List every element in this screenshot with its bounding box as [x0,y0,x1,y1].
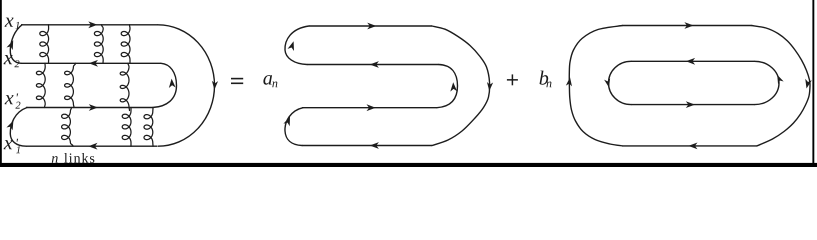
left diagram x2' quark line (rightward) [26,107,153,109]
middle diagram second line (leftward) [307,64,439,66]
middle diagram third line (rightward) [302,107,437,109]
gluon rung A2 (x1-x2) [94,25,103,64]
equals sign [231,78,243,80]
left diagram bottom-left arc (x1' to x2') [10,108,27,147]
arrow on x1' line (left) [88,143,97,150]
arrow on bottom-left arc (up) [6,119,16,130]
label x2 [4,55,13,64]
gluon rung C2 (x2'-x1') [122,108,131,147]
arrow on middle third line [367,104,376,111]
outer loop left cap [569,26,622,146]
arrow on outer left cap (up) [566,77,573,86]
arrow on middle top-left arc [288,40,297,51]
arrow on inner right cap (up) [774,74,783,85]
middle big right arc [432,26,490,146]
inner loop bottom line (rightward) [631,104,755,106]
gluon rung B3 (x2-x2') [120,63,129,110]
inner loop left cap [609,61,632,104]
middle inner right arc [437,65,458,108]
label x1 prime [4,140,13,149]
coefficient a_n [263,75,272,85]
outer loop bottom line (leftward) [623,145,758,147]
arrow on top-left arc (up) [6,39,16,50]
arrow on middle big right arc [486,82,493,91]
arrow on outer bottom line [688,143,697,150]
middle diagram bottom line (leftward) [302,145,432,147]
plus sign [507,79,518,81]
left diagram top-left arc (x2 to x1) [10,25,22,64]
gluon rung C3 (x2'-x1') [144,108,153,146]
frame right border line [812,0,814,167]
left diagram big right arc (x1 to x1') [158,25,215,146]
gluon rung A3 (x1-x2) [121,25,130,64]
arrow on inner right arc (up) [168,78,175,88]
middle diagram top line (rightward) [309,25,432,27]
left diagram x1' quark line (leftward) [26,145,157,147]
left diagram x2 quark line (leftward) [21,62,161,64]
outer loop right cap [751,26,810,146]
label n links [52,156,58,163]
outer loop top line (rightward) [623,25,752,27]
arrow on inner left cap (down) [604,78,612,88]
gluon rung B1 (x2-x2') [36,63,45,107]
gluon rung C1 (x2'-x1') [62,108,73,147]
arrow on x1 line (right) [88,21,97,28]
inner loop right cap [754,61,779,104]
label x1 [5,18,14,27]
middle top-left arc [285,26,309,65]
arrow on middle second line [370,61,379,68]
left diagram inner right arc (x2' to x2) [153,63,177,107]
label x2 prime [5,95,14,104]
arrow on x2' line (right) [89,104,98,111]
arrow on x2 line (left) [89,60,98,67]
left diagram x1 quark line (top, rightward) [21,24,158,26]
inner loop top line (leftward) [631,60,755,62]
gluon rung A1 (x1-x2) [40,25,49,64]
arrow on inner top line [686,58,695,65]
frame bottom black bar [0,163,817,167]
arrow on middle inner right arc [450,82,457,92]
arrow on middle bottom line [370,142,379,149]
arrow on inner bottom line [686,101,695,108]
middle bottom-left arc [285,108,303,146]
frame left border line [0,0,2,167]
coefficient b_n [540,71,549,85]
arrow on middle bottom-left arc [283,115,293,126]
arrow on big right arc (down) [211,81,218,90]
arrow on outer right cap (down) [803,79,812,89]
arrow on middle top line [367,23,376,30]
gluon rung B2 (x2-x2') [65,63,76,107]
arrow on outer top line [684,22,693,29]
